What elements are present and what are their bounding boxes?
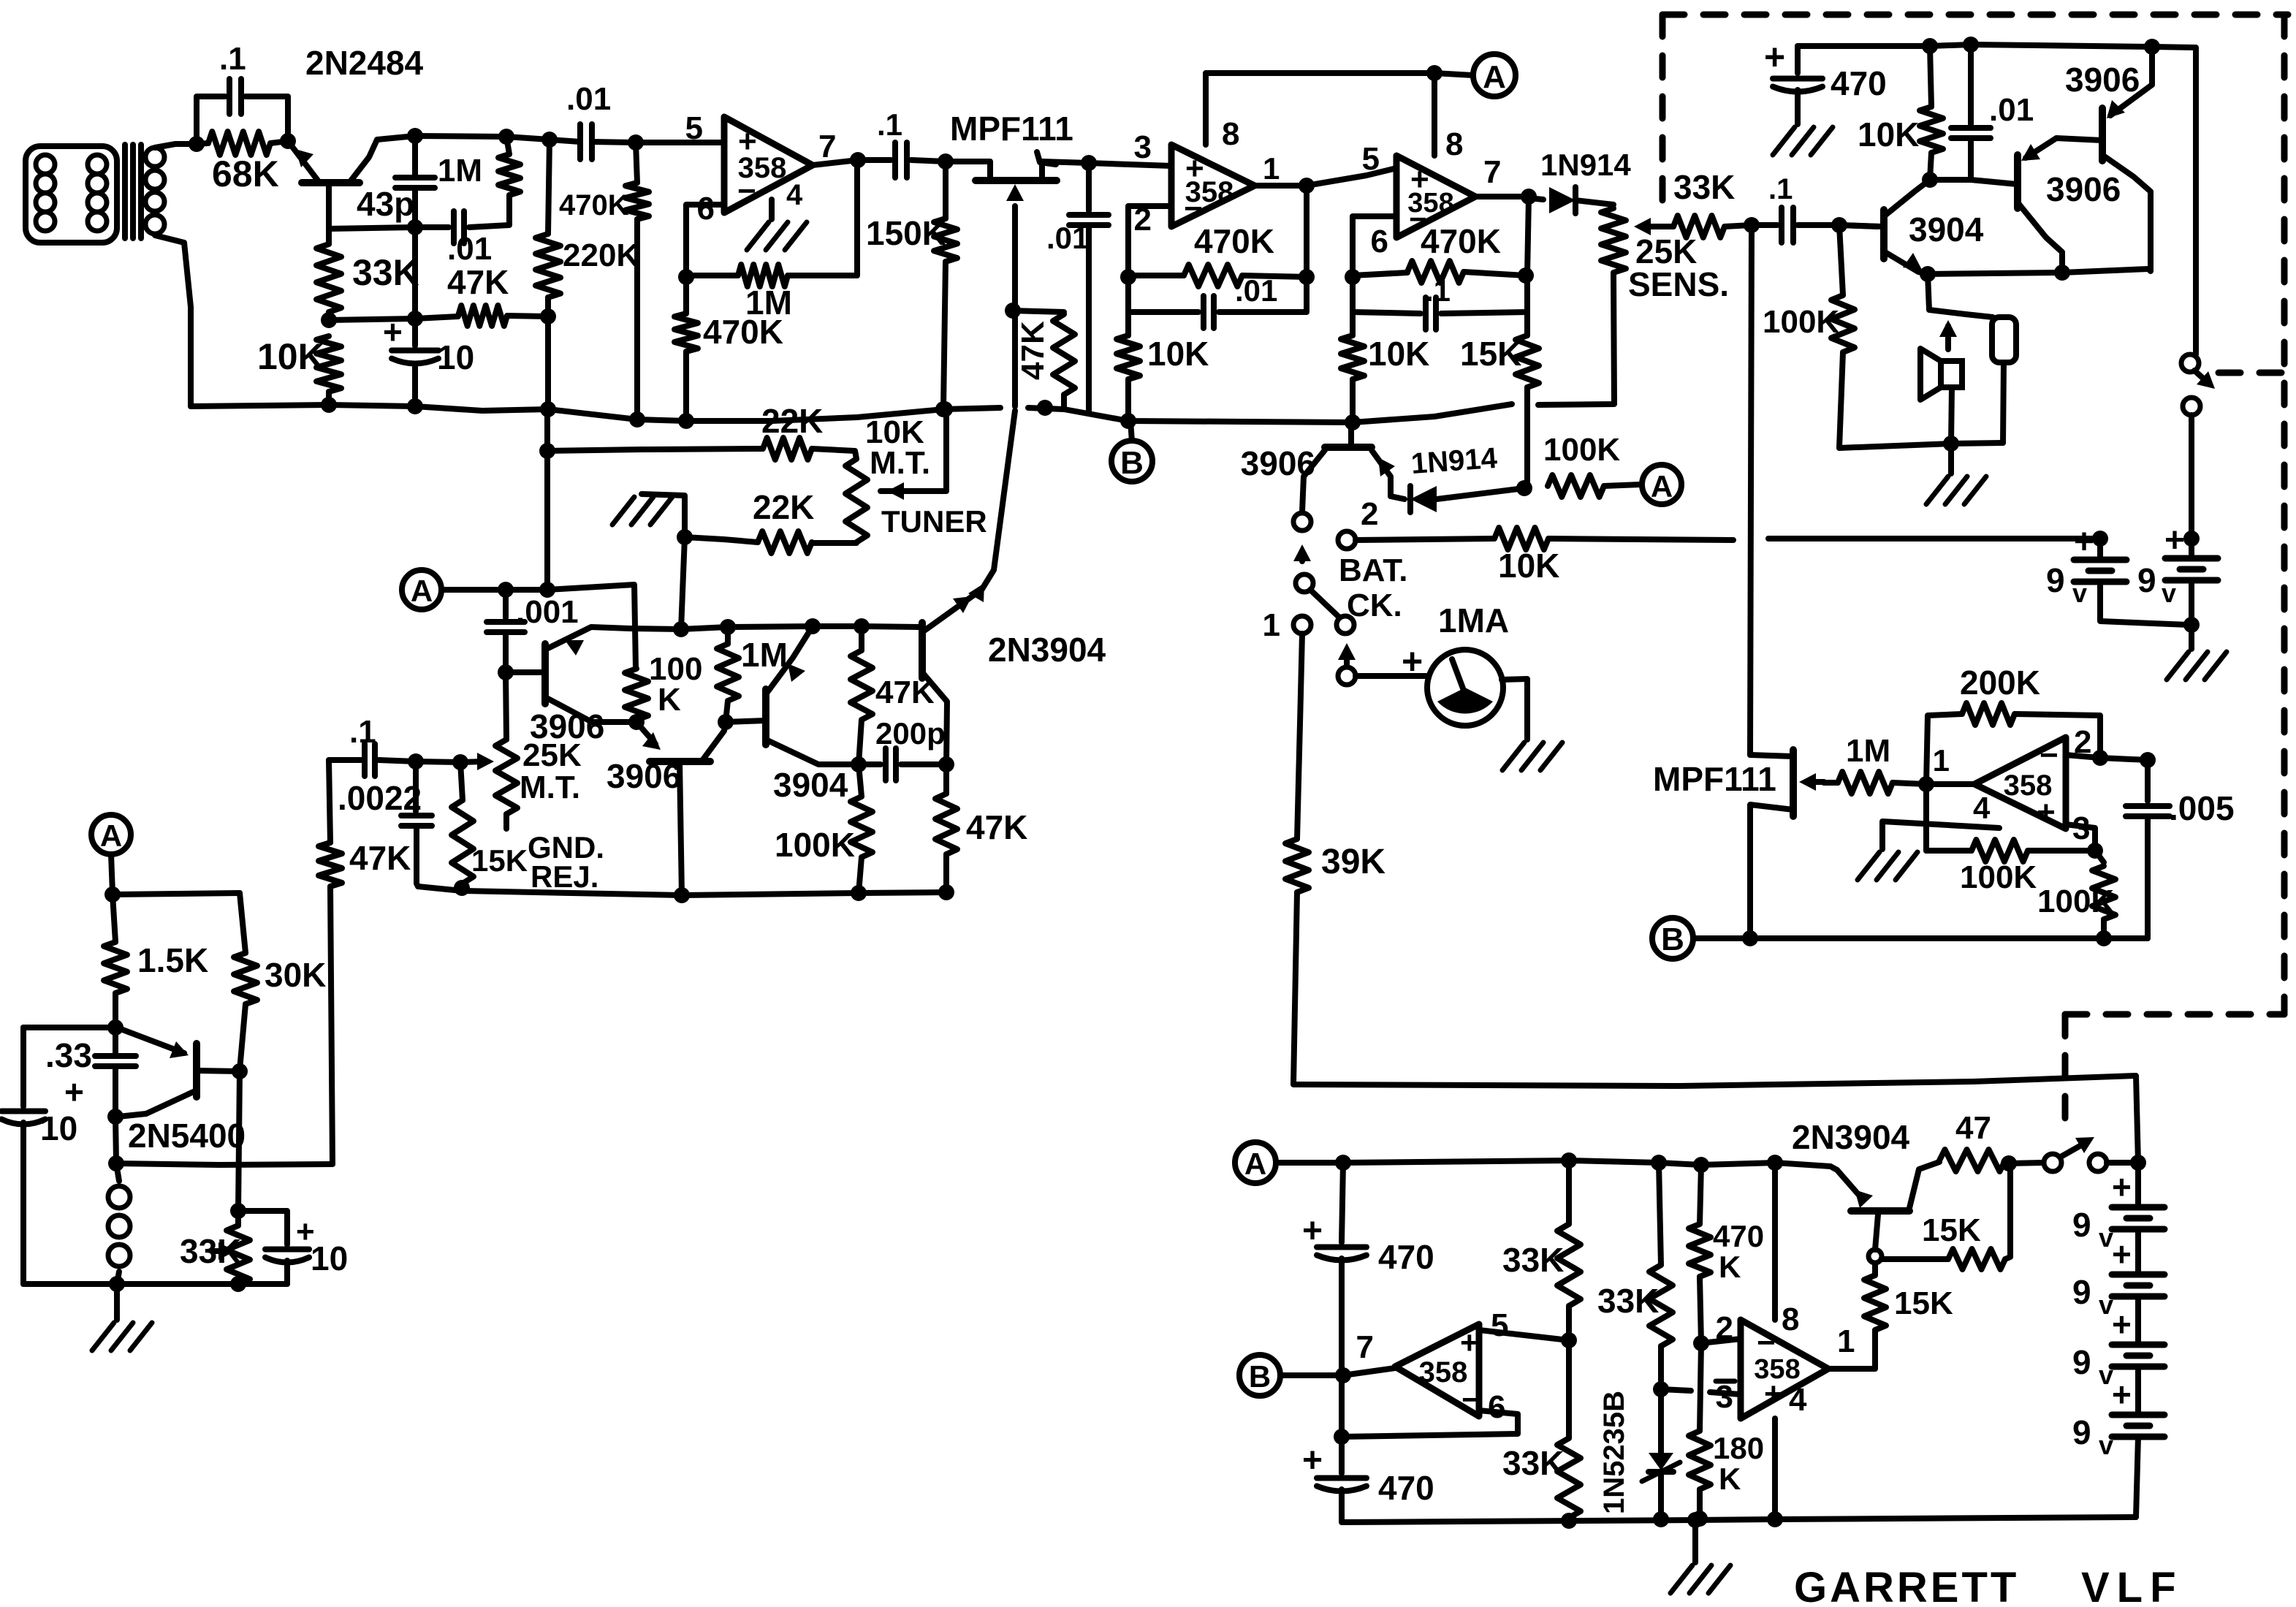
svg-text:.33: .33 bbox=[45, 1036, 92, 1074]
svg-text:K: K bbox=[1719, 1462, 1741, 1496]
svg-text:1MA: 1MA bbox=[1438, 601, 1509, 639]
svg-text:39K: 39K bbox=[1321, 843, 1385, 881]
svg-text:10K: 10K bbox=[1498, 547, 1559, 585]
svg-text:.005: .005 bbox=[2169, 789, 2235, 827]
svg-text:470: 470 bbox=[1831, 64, 1887, 102]
svg-text:+: + bbox=[2112, 1375, 2132, 1413]
svg-text:+: + bbox=[64, 1073, 84, 1111]
svg-text:470K: 470K bbox=[1421, 222, 1501, 260]
svg-text:+: + bbox=[2112, 1168, 2132, 1206]
svg-text:MPF111: MPF111 bbox=[1653, 760, 1776, 798]
svg-text:1M: 1M bbox=[741, 636, 788, 674]
svg-text:180: 180 bbox=[1713, 1431, 1764, 1465]
svg-text:SENS.: SENS. bbox=[1628, 265, 1729, 303]
svg-text:8: 8 bbox=[1222, 116, 1239, 152]
svg-text:5: 5 bbox=[685, 110, 703, 146]
svg-text:9: 9 bbox=[2072, 1413, 2091, 1451]
svg-text:10: 10 bbox=[437, 338, 474, 376]
svg-text:10K: 10K bbox=[1858, 115, 1919, 153]
svg-text:1: 1 bbox=[1263, 151, 1280, 186]
svg-text:33K: 33K bbox=[1502, 1241, 1564, 1279]
svg-text:B: B bbox=[1249, 1359, 1271, 1394]
svg-text:.1: .1 bbox=[219, 41, 246, 77]
svg-text:+: + bbox=[2074, 523, 2094, 561]
svg-text:.01: .01 bbox=[566, 81, 611, 117]
svg-text:.1: .1 bbox=[1768, 173, 1793, 205]
svg-text:VLF: VLF bbox=[2081, 1564, 2183, 1607]
svg-text:4: 4 bbox=[786, 179, 803, 211]
svg-text:A: A bbox=[100, 818, 122, 853]
svg-text:+: + bbox=[1764, 1376, 1783, 1412]
svg-text:8: 8 bbox=[1445, 126, 1463, 162]
svg-text:.001: .001 bbox=[516, 594, 579, 630]
svg-text:2: 2 bbox=[1716, 1310, 1733, 1346]
svg-text:33K: 33K bbox=[352, 252, 419, 293]
svg-text:470: 470 bbox=[1378, 1238, 1434, 1276]
svg-text:A: A bbox=[411, 574, 433, 608]
svg-text:9: 9 bbox=[2072, 1273, 2091, 1311]
svg-text:5: 5 bbox=[1362, 141, 1380, 177]
svg-text:15K: 15K bbox=[1460, 335, 1521, 373]
svg-text:100K: 100K bbox=[1543, 432, 1620, 468]
svg-text:+: + bbox=[2037, 794, 2056, 830]
svg-text:+: + bbox=[2112, 1305, 2132, 1343]
svg-text:+: + bbox=[1402, 641, 1423, 682]
svg-text:47: 47 bbox=[1955, 1110, 1991, 1146]
svg-text:6: 6 bbox=[1371, 224, 1388, 259]
svg-text:3904: 3904 bbox=[1909, 210, 1984, 248]
svg-text:9: 9 bbox=[2072, 1343, 2091, 1381]
svg-text:TUNER: TUNER bbox=[881, 504, 987, 539]
svg-text:BAT.: BAT. bbox=[1339, 552, 1408, 588]
svg-text:A: A bbox=[1483, 59, 1506, 95]
svg-text:10K: 10K bbox=[1368, 335, 1429, 373]
svg-text:1N914: 1N914 bbox=[1410, 442, 1499, 480]
svg-text:9: 9 bbox=[2137, 561, 2156, 599]
svg-text:B: B bbox=[1120, 445, 1144, 481]
svg-text:1M: 1M bbox=[438, 153, 482, 189]
svg-text:3906: 3906 bbox=[2065, 61, 2140, 99]
svg-text:470K: 470K bbox=[703, 313, 783, 351]
svg-text:10: 10 bbox=[40, 1109, 77, 1147]
svg-text:470: 470 bbox=[1713, 1219, 1764, 1253]
svg-text:7: 7 bbox=[1483, 154, 1501, 190]
svg-text:33K: 33K bbox=[1673, 168, 1735, 206]
svg-text:33K: 33K bbox=[1502, 1444, 1564, 1482]
svg-text:4: 4 bbox=[1973, 791, 1991, 825]
svg-text:100K: 100K bbox=[1960, 859, 2037, 895]
svg-text:v: v bbox=[2099, 1430, 2113, 1460]
svg-text:+: + bbox=[1302, 1212, 1323, 1250]
svg-text:M.T.: M.T. bbox=[520, 770, 580, 805]
svg-text:3906: 3906 bbox=[530, 707, 604, 745]
svg-text:3906: 3906 bbox=[607, 757, 681, 795]
svg-text:.01: .01 bbox=[447, 231, 492, 267]
svg-text:+: + bbox=[1460, 1325, 1479, 1361]
svg-text:3906: 3906 bbox=[1241, 444, 1315, 482]
svg-text:15K: 15K bbox=[1922, 1212, 1981, 1248]
svg-text:GARRETT: GARRETT bbox=[1794, 1564, 2019, 1607]
svg-text:REJ.: REJ. bbox=[531, 859, 598, 894]
svg-text:47K: 47K bbox=[966, 808, 1027, 846]
svg-text:.01: .01 bbox=[1989, 92, 2034, 128]
svg-text:43p: 43p bbox=[357, 185, 414, 223]
svg-text:−: − bbox=[2040, 737, 2059, 773]
svg-text:K: K bbox=[1719, 1250, 1741, 1284]
svg-text:47K: 47K bbox=[447, 263, 509, 301]
svg-text:B: B bbox=[1661, 922, 1684, 957]
svg-text:470K: 470K bbox=[1194, 222, 1274, 260]
svg-text:.1: .1 bbox=[349, 714, 376, 750]
svg-text:3906: 3906 bbox=[2046, 170, 2121, 208]
svg-text:100K: 100K bbox=[775, 826, 855, 864]
svg-text:K: K bbox=[658, 682, 681, 718]
svg-text:10K: 10K bbox=[1147, 335, 1209, 373]
svg-text:MPF111: MPF111 bbox=[950, 110, 1073, 148]
svg-text:A: A bbox=[1244, 1147, 1266, 1181]
svg-text:470: 470 bbox=[1378, 1469, 1434, 1507]
svg-text:200K: 200K bbox=[1960, 664, 2040, 702]
svg-text:1: 1 bbox=[1837, 1323, 1855, 1359]
svg-text:33K: 33K bbox=[180, 1232, 241, 1270]
svg-text:v: v bbox=[2072, 578, 2087, 608]
svg-text:+: + bbox=[2112, 1235, 2132, 1273]
svg-text:2: 2 bbox=[1361, 496, 1378, 532]
svg-text:150K: 150K bbox=[866, 214, 946, 252]
svg-text:470K: 470K bbox=[559, 189, 629, 221]
svg-text:.01: .01 bbox=[1235, 273, 1277, 308]
svg-text:+: + bbox=[2164, 521, 2185, 560]
svg-text:1M: 1M bbox=[1846, 733, 1890, 769]
svg-text:10: 10 bbox=[311, 1239, 348, 1277]
svg-text:220K: 220K bbox=[563, 238, 639, 273]
svg-text:3904: 3904 bbox=[773, 766, 848, 804]
svg-text:+: + bbox=[1302, 1441, 1323, 1480]
svg-text:1: 1 bbox=[1933, 743, 1950, 778]
svg-text:2N3904: 2N3904 bbox=[988, 631, 1106, 669]
svg-text:8: 8 bbox=[1782, 1302, 1799, 1337]
svg-text:6: 6 bbox=[697, 191, 715, 227]
svg-text:2N3904: 2N3904 bbox=[1792, 1118, 1910, 1156]
svg-text:33K: 33K bbox=[1597, 1282, 1659, 1320]
svg-text:2N5400: 2N5400 bbox=[128, 1117, 246, 1155]
svg-text:+: + bbox=[383, 313, 403, 351]
svg-text:−: − bbox=[737, 173, 756, 209]
svg-text:358: 358 bbox=[1419, 1356, 1468, 1388]
svg-text:v: v bbox=[2162, 578, 2176, 608]
svg-text:.1: .1 bbox=[877, 107, 902, 142]
svg-text:3: 3 bbox=[1134, 129, 1152, 165]
svg-text:30K: 30K bbox=[265, 956, 326, 994]
svg-text:68K: 68K bbox=[212, 153, 279, 194]
svg-text:.01: .01 bbox=[1046, 221, 1089, 255]
svg-text:7: 7 bbox=[818, 129, 836, 164]
svg-text:6: 6 bbox=[1488, 1389, 1505, 1425]
svg-text:4: 4 bbox=[1789, 1382, 1807, 1418]
svg-text:.0022: .0022 bbox=[338, 779, 422, 817]
svg-text:−: − bbox=[1184, 191, 1203, 227]
svg-text:200p: 200p bbox=[875, 716, 946, 751]
svg-text:22K: 22K bbox=[761, 402, 823, 440]
svg-text:47K: 47K bbox=[349, 839, 411, 877]
svg-text:10K: 10K bbox=[257, 336, 324, 377]
svg-text:7: 7 bbox=[1356, 1329, 1374, 1365]
svg-text:47K: 47K bbox=[1015, 321, 1051, 380]
svg-text:M.T.: M.T. bbox=[870, 445, 930, 481]
svg-text:100K: 100K bbox=[2037, 884, 2114, 919]
svg-text:3: 3 bbox=[1716, 1379, 1733, 1415]
svg-text:22K: 22K bbox=[753, 488, 814, 526]
svg-text:9: 9 bbox=[2046, 561, 2065, 599]
svg-text:1N914: 1N914 bbox=[1540, 148, 1631, 182]
svg-text:CK.: CK. bbox=[1347, 588, 1402, 623]
svg-text:2N2484: 2N2484 bbox=[305, 44, 424, 82]
svg-text:1.5K: 1.5K bbox=[137, 941, 208, 979]
svg-text:A: A bbox=[1651, 469, 1673, 504]
svg-text:5: 5 bbox=[1491, 1307, 1508, 1343]
svg-text:15K: 15K bbox=[1894, 1285, 1953, 1321]
svg-text:9: 9 bbox=[2072, 1206, 2091, 1244]
svg-text:15K: 15K bbox=[471, 843, 528, 878]
svg-text:1: 1 bbox=[1263, 607, 1280, 643]
svg-text:.1: .1 bbox=[1425, 273, 1451, 308]
svg-text:100K: 100K bbox=[1763, 304, 1839, 340]
svg-text:+: + bbox=[1764, 37, 1785, 77]
svg-text:1N5235B: 1N5235B bbox=[1598, 1391, 1630, 1514]
